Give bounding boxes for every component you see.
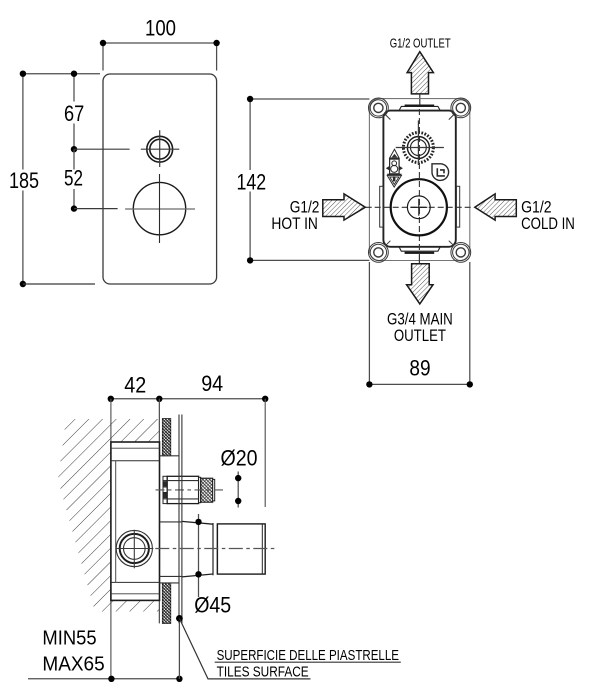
finished wall plate line2: [181, 415, 183, 624]
dim 185 dot bottom: [20, 281, 26, 287]
stub body lines: [167, 481, 198, 499]
svg-text:52: 52: [64, 166, 83, 191]
cartridge knurled ring: [403, 133, 433, 163]
thermostat symbol up triangle: [390, 149, 400, 158]
cartridge crosshair vertical: [417, 120, 419, 165]
svg-text:MAX65: MAX65: [42, 654, 104, 676]
thermostat dark mark: [393, 176, 396, 181]
svg-text:G1/2: G1/2: [521, 199, 552, 217]
step line2: [216, 524, 218, 574]
dim O20 dot bottom: [235, 498, 241, 504]
tiles surface dot: [176, 615, 183, 622]
hot in arrow: [323, 194, 366, 220]
dim dot right: [262, 396, 268, 402]
large circle crosshair horizontal: [125, 208, 195, 210]
wall hatch: [58, 419, 159, 612]
dim 100 ext left: [102, 43, 104, 71]
box port circle outer: [116, 530, 152, 566]
lug top-left: [369, 98, 391, 120]
box inner line top1: [111, 447, 160, 449]
main pipe cylinder: [217, 524, 265, 574]
handle small circle outer: [147, 136, 173, 162]
lug top-right: [449, 98, 471, 120]
dim 100 dot left: [100, 40, 106, 46]
dim O45 line: [198, 514, 200, 597]
svg-text:G3/4 MAIN: G3/4 MAIN: [387, 310, 453, 328]
ext line left (42 / minmax): [110, 399, 112, 679]
top-left ext line: [23, 73, 100, 75]
dim 142 bottom ext: [250, 259, 369, 261]
bottom ext line: [23, 283, 95, 285]
large circle crosshair vertical: [159, 174, 161, 243]
main centerline: [155, 548, 276, 550]
plate outline: [103, 74, 217, 284]
side tab right: [456, 186, 459, 227]
box inner line bottom2: [111, 593, 160, 595]
bracket line c: [160, 575, 182, 577]
port crosshair horizontal: [116, 548, 153, 550]
minmax dot left: [108, 676, 114, 682]
dim 142 dot bottom: [247, 257, 253, 263]
dim 67 line: [73, 74, 75, 150]
ext line wall face: [158, 399, 160, 624]
stub collar: [199, 477, 201, 502]
dim 89 ext right: [469, 262, 471, 384]
dim 185 dot top: [20, 71, 26, 77]
dim dot 42 left: [108, 396, 114, 402]
dim O20 line: [237, 472, 239, 508]
logo badge: [432, 164, 449, 181]
bracket line d: [160, 582, 180, 584]
svg-text:100: 100: [145, 16, 176, 41]
dim 185 line: [22, 74, 24, 284]
dim O45 dot bottom: [195, 571, 201, 577]
stub flange: [163, 476, 167, 503]
tile strip top: [162, 419, 171, 456]
ext line right (94): [264, 399, 266, 507]
valve inner body: [383, 111, 455, 247]
svg-text:MIN55: MIN55: [42, 628, 96, 650]
cartridge crosshair horizontal: [396, 147, 444, 149]
thermostat big circle: [391, 165, 398, 172]
svg-text:185: 185: [9, 168, 39, 193]
stub flange dark blocks: [164, 481, 167, 486]
dim 89 line: [369, 383, 469, 385]
bottom arrow stem dash: [418, 255, 420, 264]
svg-text:SUPERFICIE DELLE PIASTRELLE: SUPERFICIE DELLE PIASTRELLE: [217, 647, 399, 664]
dim 100 line: [103, 42, 217, 44]
dim 89 dot right: [467, 381, 473, 387]
cold in arrow: [475, 194, 517, 220]
svg-text:TILES SURFACE: TILES SURFACE: [217, 664, 309, 681]
port crosshair vertical: [133, 530, 135, 569]
thermostat left arrowhead: [386, 166, 390, 170]
side tab left: [380, 186, 383, 227]
ext line to small circle: [74, 148, 130, 150]
tile strip bottom: [162, 583, 171, 624]
dim 89 ext left: [368, 262, 370, 384]
svg-text:G1/2: G1/2: [290, 199, 320, 217]
stub knurled nut: [201, 478, 213, 502]
svg-text:Ø45: Ø45: [194, 593, 231, 618]
cartridge circle: [407, 137, 429, 159]
svg-text:42: 42: [124, 372, 146, 397]
stub centerline: [156, 489, 227, 491]
dim 67 dot bottom: [71, 146, 77, 152]
dim 142 dot top: [247, 96, 253, 102]
valve outer housing: [369, 99, 469, 261]
handle small circle inner: [150, 139, 170, 159]
tiles leader: [179, 618, 310, 679]
dim 67 dot top: [71, 71, 77, 77]
dim 89 dot left: [366, 381, 372, 387]
top cover trapezoid: [399, 106, 440, 110]
svg-text:89: 89: [409, 356, 430, 381]
box port circle mid: [120, 534, 149, 563]
handle large circle: [133, 182, 185, 234]
pipe end inner line: [261, 524, 263, 574]
dim 42-94 line: [111, 398, 265, 400]
volume control circle: [391, 179, 447, 235]
thermostat symbol body: [390, 159, 400, 174]
step line1: [212, 523, 214, 575]
finished wall plate line1: [178, 415, 180, 624]
stub flange ticks: [163, 481, 167, 499]
box inner vertical: [115, 461, 117, 583]
thermostat bar: [387, 174, 401, 176]
thermostat right arrowhead: [399, 166, 403, 170]
bottom main outlet arrow: [407, 264, 433, 304]
top outlet arrow: [407, 52, 433, 94]
horizontal dashed centerline: [366, 206, 474, 208]
svg-text:HOT IN: HOT IN: [271, 215, 318, 233]
arrow stem line: [419, 94, 421, 105]
svg-text:142: 142: [236, 169, 266, 194]
bracket line a: [160, 455, 180, 457]
main outlet taper bottom: [182, 574, 213, 577]
small circle crosshair vertical: [159, 130, 161, 167]
box inner line bottom1: [111, 581, 160, 583]
cartridge inner circle: [411, 140, 427, 156]
bracket line b: [160, 521, 182, 523]
ext line to large circle: [74, 208, 118, 210]
thermostat small circle: [392, 161, 397, 166]
top dark bar: [405, 105, 435, 107]
dim 100 ext right: [216, 43, 218, 71]
dim O45 dot top: [195, 519, 201, 525]
thermostat down triangle: [387, 175, 401, 187]
vertical dashed centerline: [418, 109, 420, 255]
superficie underline: [215, 661, 401, 663]
small circle crosshair horizontal: [141, 148, 180, 150]
svg-text:OUTLET: OUTLET: [394, 327, 446, 345]
svg-text:67: 67: [64, 101, 84, 126]
svg-text:COLD IN: COLD IN: [521, 215, 575, 233]
volume center cross: [410, 199, 427, 216]
lug bottom-left: [369, 241, 391, 263]
valve box body: [111, 442, 160, 600]
dim 142 top ext: [250, 98, 369, 100]
stub end cap: [213, 479, 215, 501]
bottom dark bar: [405, 252, 435, 254]
svg-text:G1/2 OUTLET: G1/2 OUTLET: [390, 36, 451, 50]
main outlet taper top: [182, 521, 213, 524]
minmax dim line: [28, 678, 179, 680]
dim 52 dot: [71, 205, 77, 211]
svg-text:94: 94: [201, 371, 223, 396]
volume inner circle: [407, 196, 430, 219]
svg-text:Ø20: Ø20: [221, 445, 258, 470]
minmax dot right: [176, 676, 182, 682]
lug bottom-right: [449, 241, 471, 263]
dim dot mid: [156, 396, 162, 402]
dim 142 line: [249, 99, 251, 260]
dim 100 dot right: [213, 40, 219, 46]
bottom cover trapezoid: [399, 247, 440, 251]
dim 52 line: [73, 149, 75, 208]
dim O20 dot top: [235, 475, 241, 481]
box inner line top2: [111, 460, 160, 462]
minmax ext right: [178, 618, 180, 678]
stub body: [167, 476, 198, 503]
box port circle inner: [124, 538, 146, 560]
